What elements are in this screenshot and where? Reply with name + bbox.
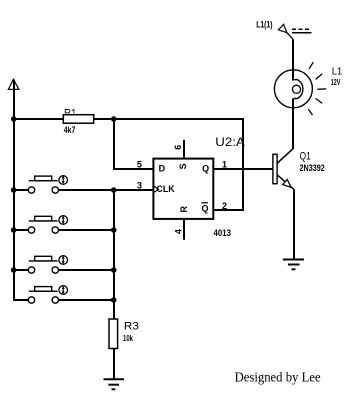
svg-text:Designed by Lee: Designed by Lee xyxy=(235,371,321,386)
pin 6 stub wire xyxy=(183,140,185,159)
pushbutton SW4 xyxy=(28,286,114,303)
net flag solid line xyxy=(292,32,312,34)
transistor Q1 emitter arrow xyxy=(283,180,291,188)
pin 4 stub wire xyxy=(183,219,185,240)
svg-text:Q1: Q1 xyxy=(300,150,311,162)
wire CLK pin 3 horizontal xyxy=(113,189,153,191)
wire Q pin1 to transistor base xyxy=(213,168,273,170)
transistor Q1 emitter diagonal xyxy=(277,175,294,190)
svg-text:2N3392: 2N3392 xyxy=(300,163,325,173)
wire top line from R1 to feedback xyxy=(113,118,244,120)
wire lamp top vertical xyxy=(292,40,294,81)
svg-text:Q: Q xyxy=(202,204,209,214)
svg-text:6: 6 xyxy=(173,145,183,150)
wire D horizontal to pin 5 xyxy=(113,168,153,170)
clock edge triangle xyxy=(153,186,158,193)
net flag triangle xyxy=(278,24,287,32)
wire feedback vertical from top line to pin2 xyxy=(242,118,244,210)
junction dots right rail xyxy=(111,116,117,122)
net flag leader line xyxy=(287,33,294,40)
svg-text:4013: 4013 xyxy=(214,228,232,238)
svg-text:10k: 10k xyxy=(123,333,133,343)
svg-text:D: D xyxy=(159,163,166,173)
ground under Q1 emitter xyxy=(283,260,304,270)
wire D drop vertical xyxy=(113,118,115,169)
flip-flop U2:A box xyxy=(153,159,213,219)
power rail VCC arrow symbol xyxy=(8,79,19,89)
wire emitter vertical to ground xyxy=(293,189,295,259)
wire row4 left corner horizontal xyxy=(13,299,28,301)
pushbutton SW3 xyxy=(13,256,114,273)
transistor Q1 base bar xyxy=(273,154,277,183)
svg-text:4k7: 4k7 xyxy=(64,125,76,135)
svg-text:3: 3 xyxy=(137,181,142,191)
svg-text:Q: Q xyxy=(202,163,209,173)
lamp L1 inner circle xyxy=(292,85,300,93)
svg-text:L1: L1 xyxy=(332,66,343,78)
svg-text:1: 1 xyxy=(222,159,227,169)
wire pin2 horizontal xyxy=(213,209,244,211)
svg-text:CLK: CLK xyxy=(156,184,175,194)
wire left rail vertical xyxy=(13,80,15,302)
pushbutton SW1 xyxy=(13,176,114,194)
svg-text:12V: 12V xyxy=(331,78,341,87)
svg-text:5: 5 xyxy=(137,159,142,169)
transistor Q1 collector diagonal xyxy=(277,148,293,163)
svg-text:4: 4 xyxy=(174,229,184,234)
junction dots left rail xyxy=(11,116,17,122)
svg-text:L1(1): L1(1) xyxy=(256,20,272,30)
svg-text:S: S xyxy=(178,163,188,169)
resistor R1 xyxy=(13,115,114,124)
pushbutton SW2 xyxy=(13,216,114,234)
wire right rail vertical buttons to R3 xyxy=(113,189,115,319)
lamp rays xyxy=(308,62,326,115)
svg-text:2: 2 xyxy=(222,201,227,211)
ground under R3 xyxy=(104,379,125,389)
net flag dashed line xyxy=(292,28,311,30)
svg-text:R: R xyxy=(179,206,189,213)
lamp L1 filament arc xyxy=(294,80,303,99)
svg-text:R3: R3 xyxy=(124,321,139,333)
svg-text:U2:A: U2:A xyxy=(215,135,245,149)
wire collector vertical to lamp xyxy=(292,99,294,149)
resistor R3 xyxy=(109,319,118,380)
lamp L1 circle xyxy=(274,70,312,108)
